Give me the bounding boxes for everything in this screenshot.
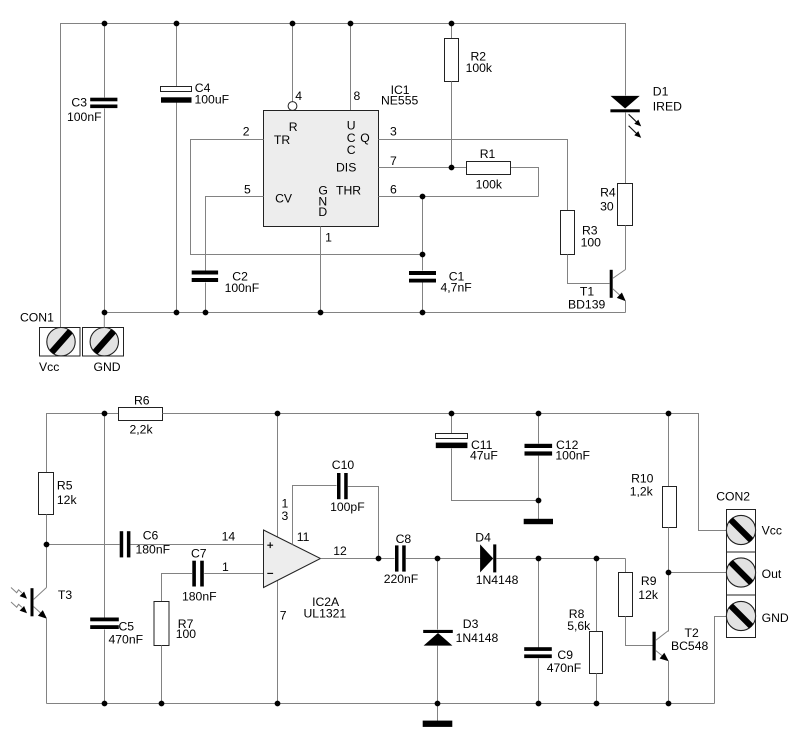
svg-text:14: 14 — [222, 530, 236, 544]
wire: R3 to T1 base — [568, 255, 610, 284]
wire: D3 branch — [437, 559, 439, 630]
svg-text:1: 1 — [325, 230, 332, 244]
svg-text:NE555: NE555 — [381, 94, 418, 108]
svg-text:C3: C3 — [71, 95, 87, 109]
resistor R2 — [445, 39, 459, 82]
svg-text:100uF: 100uF — [195, 92, 230, 106]
junction: pin 8 at Vcc rail — [348, 21, 354, 27]
svg-text:THR: THR — [336, 184, 361, 198]
junction: GND terminal at ground rail — [102, 310, 108, 316]
svg-text:30: 30 — [600, 200, 614, 214]
resistor R7 — [154, 602, 169, 646]
junction: R2/R1 at DIS line — [449, 165, 455, 171]
wire: C9 to ground rail — [538, 659, 540, 704]
svg-text:180nF: 180nF — [182, 590, 217, 604]
wire: C8 to D4 — [406, 558, 481, 560]
svg-text:CV: CV — [275, 192, 293, 206]
wire: op-amp pin 7 to ground rail — [277, 581, 279, 704]
svg-text:11: 11 — [297, 530, 310, 544]
capacitor C10 — [337, 473, 341, 499]
svg-text:IRED: IRED — [653, 100, 682, 114]
junction: R8 at ground rail — [594, 701, 600, 707]
capacitor C9 — [524, 647, 552, 651]
junction: op-amp pin 7 at ground rail — [275, 701, 281, 707]
junction: C1 at ground rail — [420, 310, 426, 316]
wire: C12 to ground symbol — [538, 456, 540, 520]
wire: C9 branch — [538, 559, 540, 648]
pin 4 inversion circle — [288, 102, 297, 111]
svg-text:1,2k: 1,2k — [630, 485, 654, 499]
svg-text:T1: T1 — [580, 284, 594, 298]
svg-text:C6: C6 — [143, 529, 159, 543]
wire: rail after R6 to CON2 Vcc — [163, 414, 727, 531]
wire: pin 8 to rail — [350, 24, 352, 111]
wire: D3 to ground rail — [437, 646, 439, 704]
svg-text:DIS: DIS — [336, 161, 356, 175]
op-amp U1 IC2A — [264, 530, 321, 588]
diode D3 1N4148 — [423, 630, 453, 633]
junction: R2 at Vcc rail — [449, 21, 455, 27]
svg-text:4,7nF: 4,7nF — [441, 281, 472, 295]
svg-text:3: 3 — [282, 509, 289, 523]
wire: GND terminal to ground rail — [103, 313, 105, 328]
wire: C5 to ground rail — [104, 630, 106, 704]
svg-text:R9: R9 — [641, 574, 657, 588]
svg-text:Vcc: Vcc — [39, 360, 59, 374]
svg-text:3: 3 — [390, 125, 397, 139]
svg-text:R6: R6 — [134, 394, 150, 408]
svg-text:5,6k: 5,6k — [567, 619, 591, 633]
transistor T1 BD139 — [610, 270, 613, 298]
IC U1: timer IC1 NE555 body — [264, 111, 379, 227]
svg-text:GND: GND — [762, 611, 789, 625]
svg-text:CON1: CON1 — [20, 311, 54, 325]
svg-text:100k: 100k — [466, 61, 493, 75]
connector CON2 — [727, 510, 756, 553]
wire: R8 branch — [596, 559, 598, 632]
junction: op-amp supply at top rail — [275, 411, 281, 417]
svg-text:T2: T2 — [685, 626, 699, 640]
svg-text:220nF: 220nF — [384, 572, 419, 586]
junction: THR node — [420, 194, 426, 200]
capacitor C5 — [90, 618, 119, 622]
op-amp - input mark — [267, 572, 273, 574]
wire: pin 4 reset to rail — [292, 24, 294, 102]
ground symbol below C12 — [524, 519, 553, 524]
wire: C1 to ground rail — [422, 283, 424, 313]
capacitor C8 — [395, 545, 399, 571]
wire: C3 branch vertical — [104, 24, 106, 98]
wire: C12 branch — [538, 414, 540, 444]
wire: T2 collector to Out node — [668, 573, 670, 632]
D1 emission arrows — [629, 114, 637, 134]
svg-text:12k: 12k — [638, 588, 659, 602]
junction: C9 at ground rail — [536, 701, 542, 707]
junction: pin 1 at ground rail — [318, 310, 324, 316]
svg-text:GND: GND — [94, 360, 121, 374]
resistor R9 — [619, 573, 633, 617]
junction: C4 at ground rail — [174, 310, 180, 316]
junction: Out node R10/T2 — [666, 570, 672, 576]
svg-text:7: 7 — [390, 154, 397, 168]
junction: C4 at Vcc rail — [174, 21, 180, 27]
capacitor C11 (electrolytic) — [436, 434, 468, 439]
svg-text:Out: Out — [762, 567, 782, 581]
capacitor C12 — [525, 444, 553, 448]
svg-text:4: 4 — [295, 89, 302, 103]
wire: T2 emitter to ground rail — [668, 661, 670, 704]
svg-text:Q: Q — [360, 131, 369, 145]
svg-text:TR: TR — [274, 133, 290, 147]
wire: D4 to R9 branch — [497, 558, 626, 560]
resistor R8 — [590, 632, 603, 674]
junction: C11/C12 ground node — [536, 498, 542, 504]
wire: pin 2 TR loop to node TR/THR — [191, 140, 423, 255]
svg-text:12: 12 — [333, 544, 347, 558]
capacitor C1 — [409, 271, 436, 275]
wire: C10 feedback loop right leg — [348, 487, 379, 559]
op-amp + input mark — [267, 542, 273, 548]
svg-text:R4: R4 — [600, 185, 616, 199]
wire: pin 7 DIS line — [379, 167, 467, 169]
svg-text:100: 100 — [176, 627, 197, 641]
ground symbol below rail — [437, 704, 439, 722]
svg-text:8: 8 — [354, 89, 361, 103]
svg-text:C8: C8 — [396, 532, 412, 546]
wire: R1 right lead down to THR line — [511, 168, 539, 197]
junction: input node R5/C6 — [44, 542, 50, 548]
diode D4 1N4148 — [480, 544, 493, 572]
svg-text:D3: D3 — [463, 617, 479, 631]
junction: C5 at top rail — [102, 411, 108, 417]
svg-text:100pF: 100pF — [330, 500, 365, 514]
wire: T1 emitter to ground rail — [625, 301, 627, 313]
svg-text:D: D — [318, 205, 327, 219]
wire: R10 branch from rail — [668, 414, 670, 487]
svg-text:47uF: 47uF — [470, 449, 498, 463]
resistor R3 — [561, 211, 575, 255]
svg-text:1N4148: 1N4148 — [456, 631, 499, 645]
T3 incident light arrows — [11, 588, 22, 608]
wire: C7 to R7 — [162, 574, 193, 602]
svg-text:BD139: BD139 — [568, 298, 605, 312]
junction: pin 4 at Vcc rail — [290, 21, 296, 27]
wire: CON2 GND to ground rail — [715, 617, 727, 704]
wire: THR node down to C1 — [422, 197, 424, 271]
wire: Vcc top rail (transmitter) — [61, 24, 626, 328]
phototransistor T3 — [31, 588, 34, 616]
svg-text:2: 2 — [243, 125, 250, 139]
wire: op-amp output pin 12 — [321, 558, 395, 560]
svg-text:C5: C5 — [119, 620, 135, 634]
capacitor C6 — [120, 531, 124, 557]
svg-text:100: 100 — [581, 235, 602, 249]
wire: R5 to T3 collector node — [46, 515, 48, 588]
svg-text:12k: 12k — [57, 493, 78, 507]
svg-text:C10: C10 — [332, 458, 355, 472]
svg-text:2,2k: 2,2k — [130, 423, 154, 437]
wire: T3 emitter to ground rail — [46, 618, 48, 704]
junction: C3 at Vcc rail — [102, 21, 108, 27]
wire: pin 1 GND to ground rail — [320, 227, 322, 313]
junction: R10 at top rail — [666, 411, 672, 417]
svg-text:CON2: CON2 — [716, 489, 750, 503]
ground rail (transmitter) — [105, 312, 626, 314]
junction: D3 at ground rail — [435, 701, 441, 707]
capacitor C2 — [192, 271, 218, 275]
wire: pin 3 output to R3 — [379, 140, 568, 211]
wire: R8 to ground rail — [596, 674, 598, 704]
wire: C4 branch vertical — [176, 24, 178, 87]
wire: C11 branch — [451, 414, 453, 434]
resistor R10 — [663, 487, 677, 528]
wire: C2 to ground rail — [205, 283, 207, 313]
transistor T2 BC548 — [653, 632, 656, 661]
svg-text:R: R — [289, 120, 298, 134]
svg-text:T3: T3 — [58, 588, 72, 602]
svg-text:100nF: 100nF — [225, 281, 260, 295]
ground rail (receiver) — [47, 703, 715, 705]
svg-text:7: 7 — [280, 609, 287, 623]
resistor R6 — [119, 408, 163, 421]
svg-text:BC548: BC548 — [671, 639, 708, 653]
junction: feedback at output — [376, 556, 382, 562]
capacitor C4 (electrolytic) — [161, 87, 192, 92]
svg-text:470nF: 470nF — [547, 661, 582, 675]
svg-text:Vcc: Vcc — [762, 523, 782, 537]
connector CON1 — [40, 328, 81, 357]
svg-text:R5: R5 — [57, 479, 73, 493]
wire: C10 feedback loop left leg pin 11 — [293, 486, 337, 545]
wire: pin 5 CV branch to C2 — [206, 197, 264, 271]
junction: C2 at ground rail — [203, 310, 209, 316]
svg-text:1N4148: 1N4148 — [476, 573, 519, 587]
junction: R8 at output line — [594, 556, 600, 562]
junction: C5 at ground rail — [102, 701, 108, 707]
wire: R4 to T1 collector — [625, 226, 627, 270]
wire: R10 to Out node — [668, 528, 670, 573]
junction: R7 at ground rail — [159, 701, 165, 707]
diode D1 IRED — [611, 96, 640, 109]
wire: input node to C6 — [47, 544, 120, 546]
svg-text:100nF: 100nF — [67, 110, 102, 124]
wire: R2 to DIS line — [451, 82, 453, 168]
resistor R1 — [467, 162, 511, 175]
wire: R7 to ground rail — [161, 646, 163, 704]
svg-text:1: 1 — [222, 560, 229, 574]
svg-text:100nF: 100nF — [555, 449, 590, 463]
svg-text:C7: C7 — [191, 547, 207, 561]
wire: C5 branch vertical — [104, 414, 106, 618]
svg-text:D4: D4 — [475, 531, 491, 545]
wire: C11 to C12 ground node — [452, 449, 539, 501]
wire: C6 to op-amp pin 14 — [131, 544, 264, 546]
wire: down to R9 — [625, 559, 627, 573]
junction: T2 emitter at ground rail — [666, 701, 672, 707]
wire: R9 to T2 base — [626, 617, 653, 646]
junction: D3 at output line — [435, 556, 441, 562]
svg-text:D1: D1 — [653, 84, 669, 98]
wire: Out node to CON2 — [669, 572, 727, 574]
junction: TR/C1 node — [420, 252, 426, 258]
capacitor C7 — [192, 561, 196, 587]
resistor R4 — [618, 184, 633, 226]
svg-text:C: C — [347, 143, 356, 157]
wire: R2 branch from rail — [451, 24, 453, 39]
wire: pin 6 THR line — [379, 196, 539, 198]
capacitor C3 — [90, 98, 117, 102]
svg-text:R1: R1 — [480, 147, 496, 161]
svg-text:470nF: 470nF — [109, 633, 144, 647]
svg-text:100k: 100k — [476, 178, 503, 192]
svg-text:6: 6 — [390, 182, 397, 196]
svg-text:UL1321: UL1321 — [304, 606, 347, 620]
junction: C11 at top rail — [449, 411, 455, 417]
resistor R5 — [39, 473, 54, 515]
svg-text:5: 5 — [244, 182, 251, 196]
wire: op-amp pin 1 to C7 — [204, 573, 263, 575]
wire: op-amp pins 1/3 supply drop — [277, 414, 279, 538]
junction: C12 at top rail — [536, 411, 542, 417]
wire: D1 to R4 — [625, 113, 627, 184]
svg-text:R10: R10 — [631, 472, 654, 486]
wire: Vcc top rail (receiver) — [47, 414, 119, 473]
junction: C9 at output line — [536, 556, 542, 562]
